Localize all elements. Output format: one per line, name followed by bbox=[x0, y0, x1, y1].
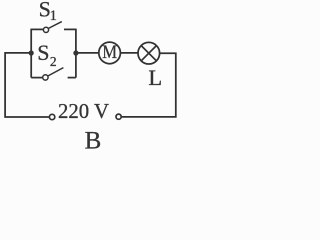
motor M circle bbox=[99, 42, 121, 64]
switch S1 lever bbox=[48, 22, 62, 29]
lamp cross stroke 1 bbox=[141, 46, 156, 61]
battery terminal right circle bbox=[116, 114, 121, 119]
svg-text:B: B bbox=[85, 127, 102, 152]
wire junction to motor bbox=[76, 52, 99, 54]
wire parallel-branch left vertical bbox=[30, 29, 32, 78]
switch S1 right lead bbox=[64, 28, 76, 30]
junction node left bbox=[29, 50, 34, 55]
switch S2 right lead bbox=[68, 77, 76, 79]
switch S2 lever bbox=[48, 68, 64, 77]
svg-text:2: 2 bbox=[50, 54, 57, 69]
lamp cross stroke 2 bbox=[141, 46, 156, 61]
lamp L circle bbox=[138, 42, 160, 64]
svg-text:1: 1 bbox=[50, 8, 57, 24]
junction node right bbox=[73, 50, 78, 55]
switch S2 left lead bbox=[31, 77, 42, 79]
wire parallel-branch right vertical bbox=[75, 29, 77, 78]
svg-text:L: L bbox=[148, 65, 162, 90]
wire motor to lamp bbox=[120, 52, 138, 54]
switch S2 pivot circle bbox=[43, 75, 48, 80]
switch S1 pivot circle bbox=[43, 27, 48, 32]
switch S1 left lead bbox=[31, 28, 43, 30]
svg-text:M: M bbox=[102, 43, 117, 63]
battery terminal left circle bbox=[49, 114, 54, 119]
wire left outer: top corner to bottom, to left terminal bbox=[5, 53, 49, 117]
svg-text:220 V: 220 V bbox=[58, 100, 109, 123]
wire bottom right + right riser to lamp bbox=[121, 53, 176, 117]
svg-text:S: S bbox=[37, 40, 49, 65]
